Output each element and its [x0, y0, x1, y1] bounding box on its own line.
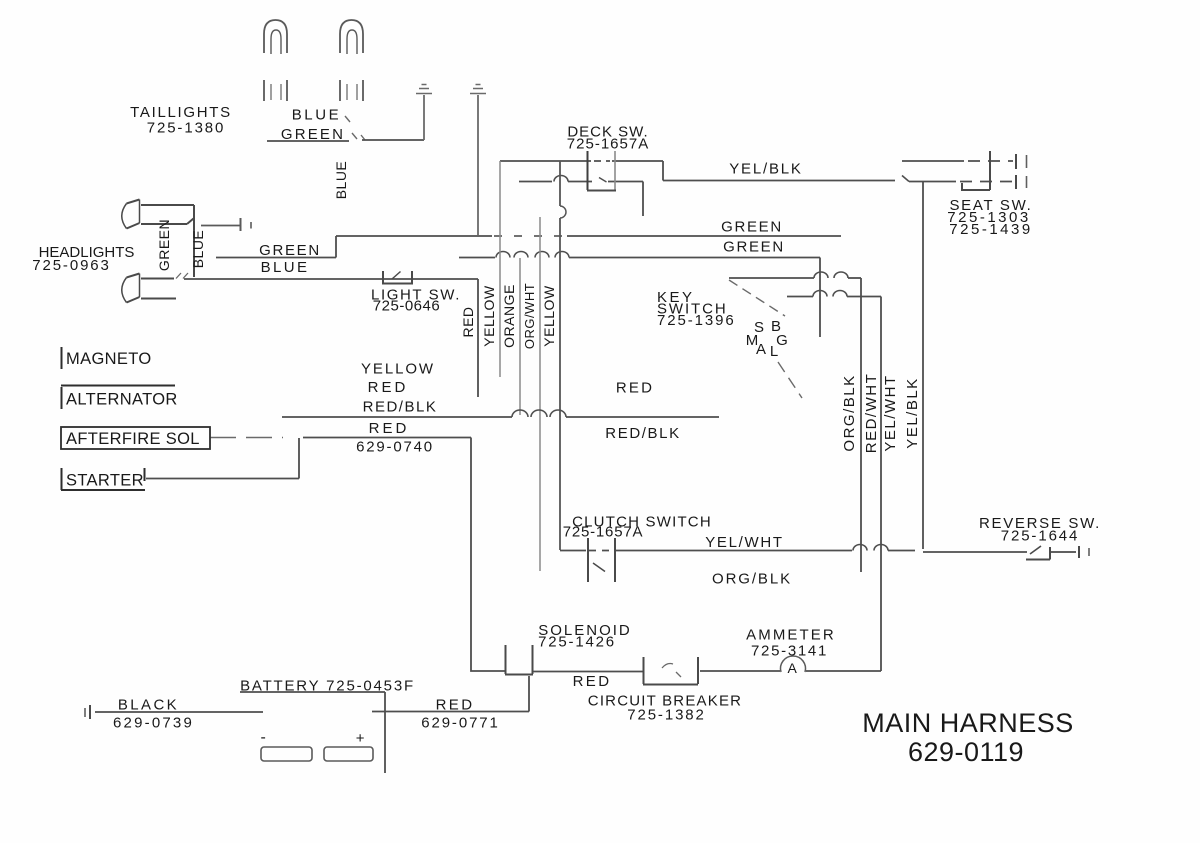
svg-text:-: -: [260, 729, 267, 746]
svg-text:ORG/BLK: ORG/BLK: [712, 571, 792, 588]
wire GREEN2 run with hops: [459, 252, 820, 258]
seat switch open contact slash: [902, 176, 909, 182]
alternator tag: [61, 386, 175, 410]
svg-text:ORG/WHT: ORG/WHT: [522, 283, 537, 349]
svg-text:629-0119: 629-0119: [908, 737, 1024, 767]
taillight bulb socket left: [264, 20, 287, 101]
svg-text:BLUE: BLUE: [292, 107, 342, 124]
svg-text:629-0739: 629-0739: [113, 715, 194, 732]
seat switch connector pins: [962, 151, 1027, 190]
wire reverse switch feed: [923, 551, 1027, 553]
svg-text:ALTERNATOR: ALTERNATOR: [66, 391, 178, 409]
wire BLACK battery: [95, 711, 263, 713]
svg-text:RED: RED: [368, 379, 409, 396]
wire YEL/BLK dashed to seat connector: [909, 181, 1013, 183]
svg-text:GREEN: GREEN: [156, 219, 172, 271]
wire battery positive riser: [528, 676, 530, 712]
magneto tag: [61, 347, 63, 369]
svg-text:GREEN: GREEN: [259, 242, 321, 259]
clutch switch CS1 pins: [588, 538, 615, 582]
svg-text:ORANGE: ORANGE: [501, 284, 517, 348]
light switch LS1: [383, 271, 412, 284]
key switch second wire with hops: [787, 291, 881, 297]
svg-text:YELLOW: YELLOW: [541, 285, 557, 347]
svg-text:RED: RED: [573, 673, 612, 690]
wire red 629-0740 run: [303, 437, 471, 439]
wire GREEN1 run: [336, 235, 841, 237]
battery B1 center post: [384, 692, 386, 773]
wire YEL/BLK vertical: [922, 182, 924, 549]
deck switch DS1 pins: [587, 151, 616, 191]
svg-text:YEL/BLK: YEL/BLK: [729, 161, 802, 178]
svg-text:BLUE: BLUE: [261, 259, 310, 276]
svg-text:725-1426: 725-1426: [538, 634, 616, 651]
key terminal letters S B M G A L: [746, 318, 788, 360]
svg-text:725-1380: 725-1380: [147, 120, 226, 137]
svg-text:725-3141: 725-3141: [751, 643, 828, 660]
svg-text:BLUE: BLUE: [333, 161, 349, 200]
key switch top feed wire: [729, 272, 861, 278]
svg-text:STARTER: STARTER: [66, 472, 144, 490]
svg-text:725-1644: 725-1644: [1001, 528, 1080, 545]
battery plate negative: [261, 747, 312, 761]
svg-text:MAGNETO: MAGNETO: [66, 350, 152, 368]
svg-text:BLACK: BLACK: [118, 697, 179, 714]
battery label underline: [240, 691, 385, 693]
svg-text:A: A: [756, 341, 766, 358]
svg-text:YEL/WHT: YEL/WHT: [705, 534, 784, 551]
ammeter AM1 circle: [781, 656, 806, 672]
wire GREEN riser: [335, 236, 337, 258]
svg-text:+: +: [356, 730, 366, 747]
wire drop to solenoid: [471, 438, 505, 672]
wire BLUE headlights to light switch: [184, 278, 478, 280]
svg-text:GREEN: GREEN: [281, 126, 345, 143]
wire taillight green underline: [267, 140, 349, 142]
svg-text:RED/BLK: RED/BLK: [605, 425, 680, 442]
svg-text:725-1382: 725-1382: [627, 707, 706, 724]
wire ORG/BLK vertical: [860, 278, 862, 572]
ground G1: [416, 85, 432, 141]
connector black lead end: [85, 705, 90, 719]
wire starter lead: [146, 438, 299, 479]
svg-text:725-1396: 725-1396: [657, 312, 736, 329]
deck switch stub drop: [642, 182, 644, 217]
wire RED battery: [372, 711, 529, 713]
svg-text:TAILLIGHTS: TAILLIGHTS: [130, 104, 232, 121]
afterfire sol box: [61, 427, 210, 449]
wire RED/BLK run with hops: [282, 410, 719, 417]
wire seat switch upper: [902, 160, 1013, 162]
wire breaker to ammeter: [700, 670, 780, 672]
svg-text:725-1657A: 725-1657A: [567, 136, 649, 153]
svg-text:BLUE: BLUE: [190, 230, 206, 269]
svg-text:YELLOW: YELLOW: [481, 285, 497, 347]
wire clutch YEL/WHT run with hops: [560, 545, 915, 551]
svg-text:YEL/BLK: YEL/BLK: [904, 377, 921, 448]
svg-text:YELLOW: YELLOW: [361, 361, 435, 378]
svg-text:ORG/BLK: ORG/BLK: [841, 374, 858, 451]
wire ammeter to red/wht riser: [806, 670, 881, 672]
svg-text:GREEN: GREEN: [723, 239, 785, 256]
svg-text:629-0740: 629-0740: [356, 439, 434, 456]
taillight bulb socket right: [340, 20, 363, 101]
solenoid SOL1 connector: [505, 645, 533, 675]
wire GREEN2 drop to key switch: [819, 258, 821, 338]
starter box: [61, 468, 145, 490]
svg-text:RED/BLK: RED/BLK: [363, 399, 438, 416]
svg-text:YEL/WHT: YEL/WHT: [882, 374, 899, 451]
deck switch line2: [519, 176, 643, 182]
svg-text:RED: RED: [369, 420, 410, 437]
svg-text:AMMETER: AMMETER: [746, 627, 836, 644]
svg-text:RED: RED: [436, 697, 475, 714]
svg-text:RED/WHT: RED/WHT: [863, 373, 880, 454]
svg-text:BATTERY 725-0453F: BATTERY 725-0453F: [240, 678, 415, 695]
headlight socket top: [122, 200, 194, 278]
svg-text:725-1657A: 725-1657A: [563, 524, 644, 541]
wire YEL/BLK to seat switch: [663, 180, 895, 182]
wire RED to circuit breaker: [533, 671, 643, 673]
deck switch feed line1: [500, 160, 663, 162]
svg-text:RED: RED: [460, 306, 476, 337]
battery plate positive: [324, 747, 373, 761]
svg-text:725-0646: 725-0646: [373, 298, 440, 315]
circuit breaker CB1: [643, 657, 698, 685]
wire afterfire sol dashed lead: [210, 437, 283, 439]
wire YELLOW2 vertical x560: [560, 161, 566, 550]
svg-text:AFTERFIRE SOL: AFTERFIRE SOL: [66, 430, 200, 448]
wire BLUE headlights break marks: [176, 273, 188, 279]
reverse switch RS1 contact: [1026, 546, 1089, 560]
deck switch corner drop: [662, 161, 664, 181]
svg-text:725-1439: 725-1439: [949, 221, 1032, 238]
wire green-to-ground segment: [362, 139, 424, 141]
svg-text:725-0963: 725-0963: [32, 257, 111, 274]
taillight label tick marks: [345, 116, 365, 140]
svg-text:629-0771: 629-0771: [421, 715, 500, 732]
wire RED drop from light switch: [477, 279, 479, 397]
headlight socket bottom: [122, 274, 176, 303]
wire YELLOW vertical x500: [499, 161, 501, 377]
svg-text:A: A: [787, 660, 798, 676]
svg-text:RED: RED: [616, 380, 654, 397]
connector stub headlights top: [201, 218, 251, 231]
wire ORG/WHT vertical x540: [539, 217, 541, 571]
wire GREEN headlights: [216, 257, 336, 259]
key switch KS1 dashed diagonals: [729, 280, 802, 398]
svg-text:L: L: [770, 343, 778, 360]
wire RED/WHT vertical: [880, 297, 882, 672]
svg-text:GREEN: GREEN: [721, 219, 783, 236]
ground G2: [470, 85, 486, 236]
svg-text:MAIN HARNESS: MAIN HARNESS: [862, 708, 1074, 738]
wire ORANGE vertical x520: [519, 258, 521, 415]
